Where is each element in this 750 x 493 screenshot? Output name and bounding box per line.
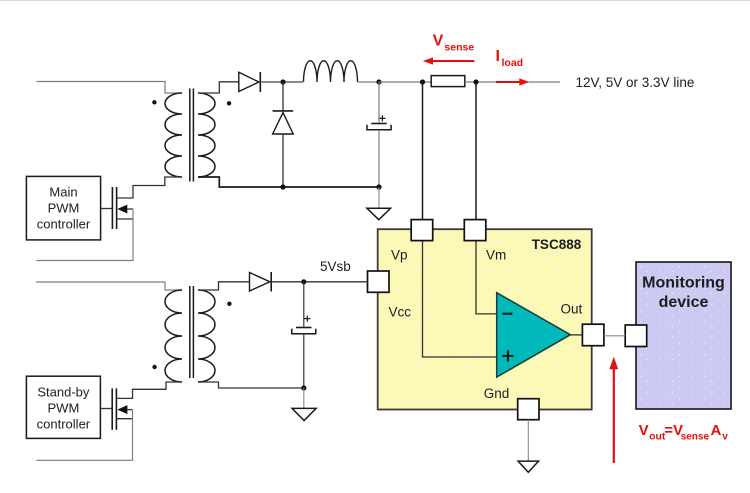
pin Gnd — [518, 399, 539, 420]
capacitor C2 — [292, 316, 316, 334]
diode D3 — [250, 272, 272, 292]
wire: stand-by primary input lead — [36, 282, 182, 290]
node 5Vsb junction — [301, 279, 306, 284]
svg-text:v: v — [722, 432, 728, 443]
ground symbol (secondary rail) — [367, 208, 391, 219]
transformer T1 primary winding — [165, 93, 182, 177]
svg-text:load: load — [502, 57, 524, 69]
page bottom hairline — [0, 485, 750, 487]
transformer T1 core — [189, 89, 191, 182]
svg-text:I: I — [496, 48, 500, 65]
junction C2/ground — [301, 385, 306, 390]
pin Vp — [411, 220, 433, 241]
pin Out — [582, 324, 604, 346]
svg-text:controller: controller — [37, 417, 91, 432]
svg-text:12V, 5V or 3.3V line: 12V, 5V or 3.3V line — [576, 75, 695, 90]
wire: T1 secondary bottom lead / ground rail — [198, 177, 379, 187]
transformer T2 secondary dot — [227, 302, 231, 306]
node Vp junction — [420, 79, 425, 84]
wire: D1 cathode to node A — [260, 81, 303, 83]
IC block TSC888 body — [378, 229, 592, 409]
transformer T1 secondary winding — [198, 93, 215, 177]
wire: Q2 source return — [36, 410, 132, 461]
pin Monitoring input — [625, 325, 647, 347]
wire: node A down to D2 — [282, 82, 284, 111]
svg-text:controller: controller — [37, 217, 91, 232]
wire: D3 cathode to Vcc pin — [271, 281, 367, 283]
wire: gate Main controller to Q1 — [101, 208, 113, 210]
diode D2 (freewheeling) — [273, 111, 294, 134]
transformer T2 core — [189, 286, 191, 378]
svg-text:A: A — [711, 422, 722, 439]
ground symbol (stand-by rail) — [292, 408, 316, 420]
wire: node Vm down to pin Vm — [475, 82, 477, 220]
svg-text:Gnd: Gnd — [484, 386, 510, 401]
wire: pin Vm to op-amp - input — [476, 241, 497, 314]
transistor Q1 (main MOSFET) — [112, 187, 133, 229]
wire: node B to C1 — [378, 82, 380, 123]
inductor L1 — [304, 61, 358, 82]
page top hairline — [0, 0, 750, 2]
op-amp U1 — [497, 293, 571, 377]
Stand-by PWM controller box — [26, 376, 100, 438]
transformer T1 secondary dot — [227, 101, 231, 105]
junction D2/rail — [280, 184, 285, 189]
svg-text:Out: Out — [561, 301, 583, 316]
wire: node B to sense resistor — [379, 81, 431, 83]
svg-text:sense: sense — [444, 41, 474, 53]
junction C1/rail — [376, 184, 381, 189]
wire: gate Stand-by controller to Q2 — [100, 408, 112, 410]
transformer T2 secondary winding — [198, 290, 215, 382]
ground symbol (IC Gnd) — [518, 461, 539, 472]
svg-text:Stand-by: Stand-by — [37, 385, 90, 400]
wire: T2 secondary top lead to D3 — [198, 282, 250, 290]
svg-text:Monitoring: Monitoring — [642, 274, 725, 291]
wire: T2 primary bottom lead to Q2 drain — [116, 382, 182, 398]
wire: pin Out to monitoring pin — [604, 335, 625, 337]
Main PWM controller box — [26, 176, 100, 240]
svg-text:.: . — [706, 431, 709, 443]
transformer T2 primary dot — [152, 365, 156, 369]
red Vsense arrow (leftward) — [423, 57, 475, 64]
wire: T1 primary bottom lead to Q1 drain — [116, 177, 182, 198]
pin Vcc — [368, 271, 390, 292]
wire: D2 anode to ground rail — [282, 134, 284, 187]
wire: node to ground symbol — [303, 388, 305, 408]
wire: pin Vp to op-amp + input — [423, 241, 497, 358]
transistor Q2 (stand-by MOSFET) — [112, 388, 132, 430]
wire: node Vp down to pin Vp — [422, 82, 424, 220]
wire: line to load — [529, 81, 560, 83]
wire: L1 to node B — [358, 81, 380, 83]
capacitor C1 — [367, 115, 391, 130]
wire: primary input lead (top-left) — [37, 82, 183, 94]
svg-text:Vcc: Vcc — [389, 304, 412, 319]
node Vm junction — [473, 79, 478, 84]
node B junction — [376, 79, 381, 84]
wire: C1 to ground rail node — [378, 130, 380, 187]
svg-text:Vp: Vp — [391, 248, 408, 263]
red formula Vout = Vsense . Av — [639, 422, 729, 443]
node A junction — [280, 79, 285, 84]
svg-text:PWM: PWM — [48, 401, 80, 416]
svg-text:Vm: Vm — [486, 248, 506, 263]
diode D1 — [239, 72, 260, 92]
svg-text:V: V — [639, 422, 649, 439]
svg-text:V: V — [433, 32, 444, 49]
wire: C2 to ground node — [303, 334, 305, 388]
svg-text:TSC888: TSC888 — [532, 237, 582, 252]
wire: resistor to node Vm — [465, 81, 496, 83]
transformer T1 primary dot — [152, 100, 156, 104]
wire: T1 secondary top lead to D1 — [198, 82, 239, 93]
svg-text:Main: Main — [49, 185, 77, 200]
wire: 5Vsb node down to C2 — [303, 282, 305, 327]
wire: rail node to ground symbol — [378, 187, 380, 208]
red output arrow (upward) — [609, 357, 618, 463]
svg-text:device: device — [659, 294, 709, 311]
wire: pin Gnd to ground symbol — [527, 420, 529, 461]
Monitoring device block — [636, 262, 731, 409]
red Iload label — [496, 48, 524, 69]
transformer T2 primary winding — [165, 290, 182, 382]
red Vsense label — [433, 32, 475, 53]
svg-text:5Vsb: 5Vsb — [320, 259, 351, 274]
pin Vm — [464, 220, 486, 241]
sense resistor R1 — [431, 76, 465, 87]
svg-text:PWM: PWM — [48, 201, 80, 216]
wire: op-amp output to pin Out — [570, 334, 582, 336]
red Iload arrow (rightward) — [496, 78, 530, 85]
wire: T2 secondary bottom lead to C2 — [198, 382, 304, 388]
wire: Q1 source return — [36, 209, 133, 261]
